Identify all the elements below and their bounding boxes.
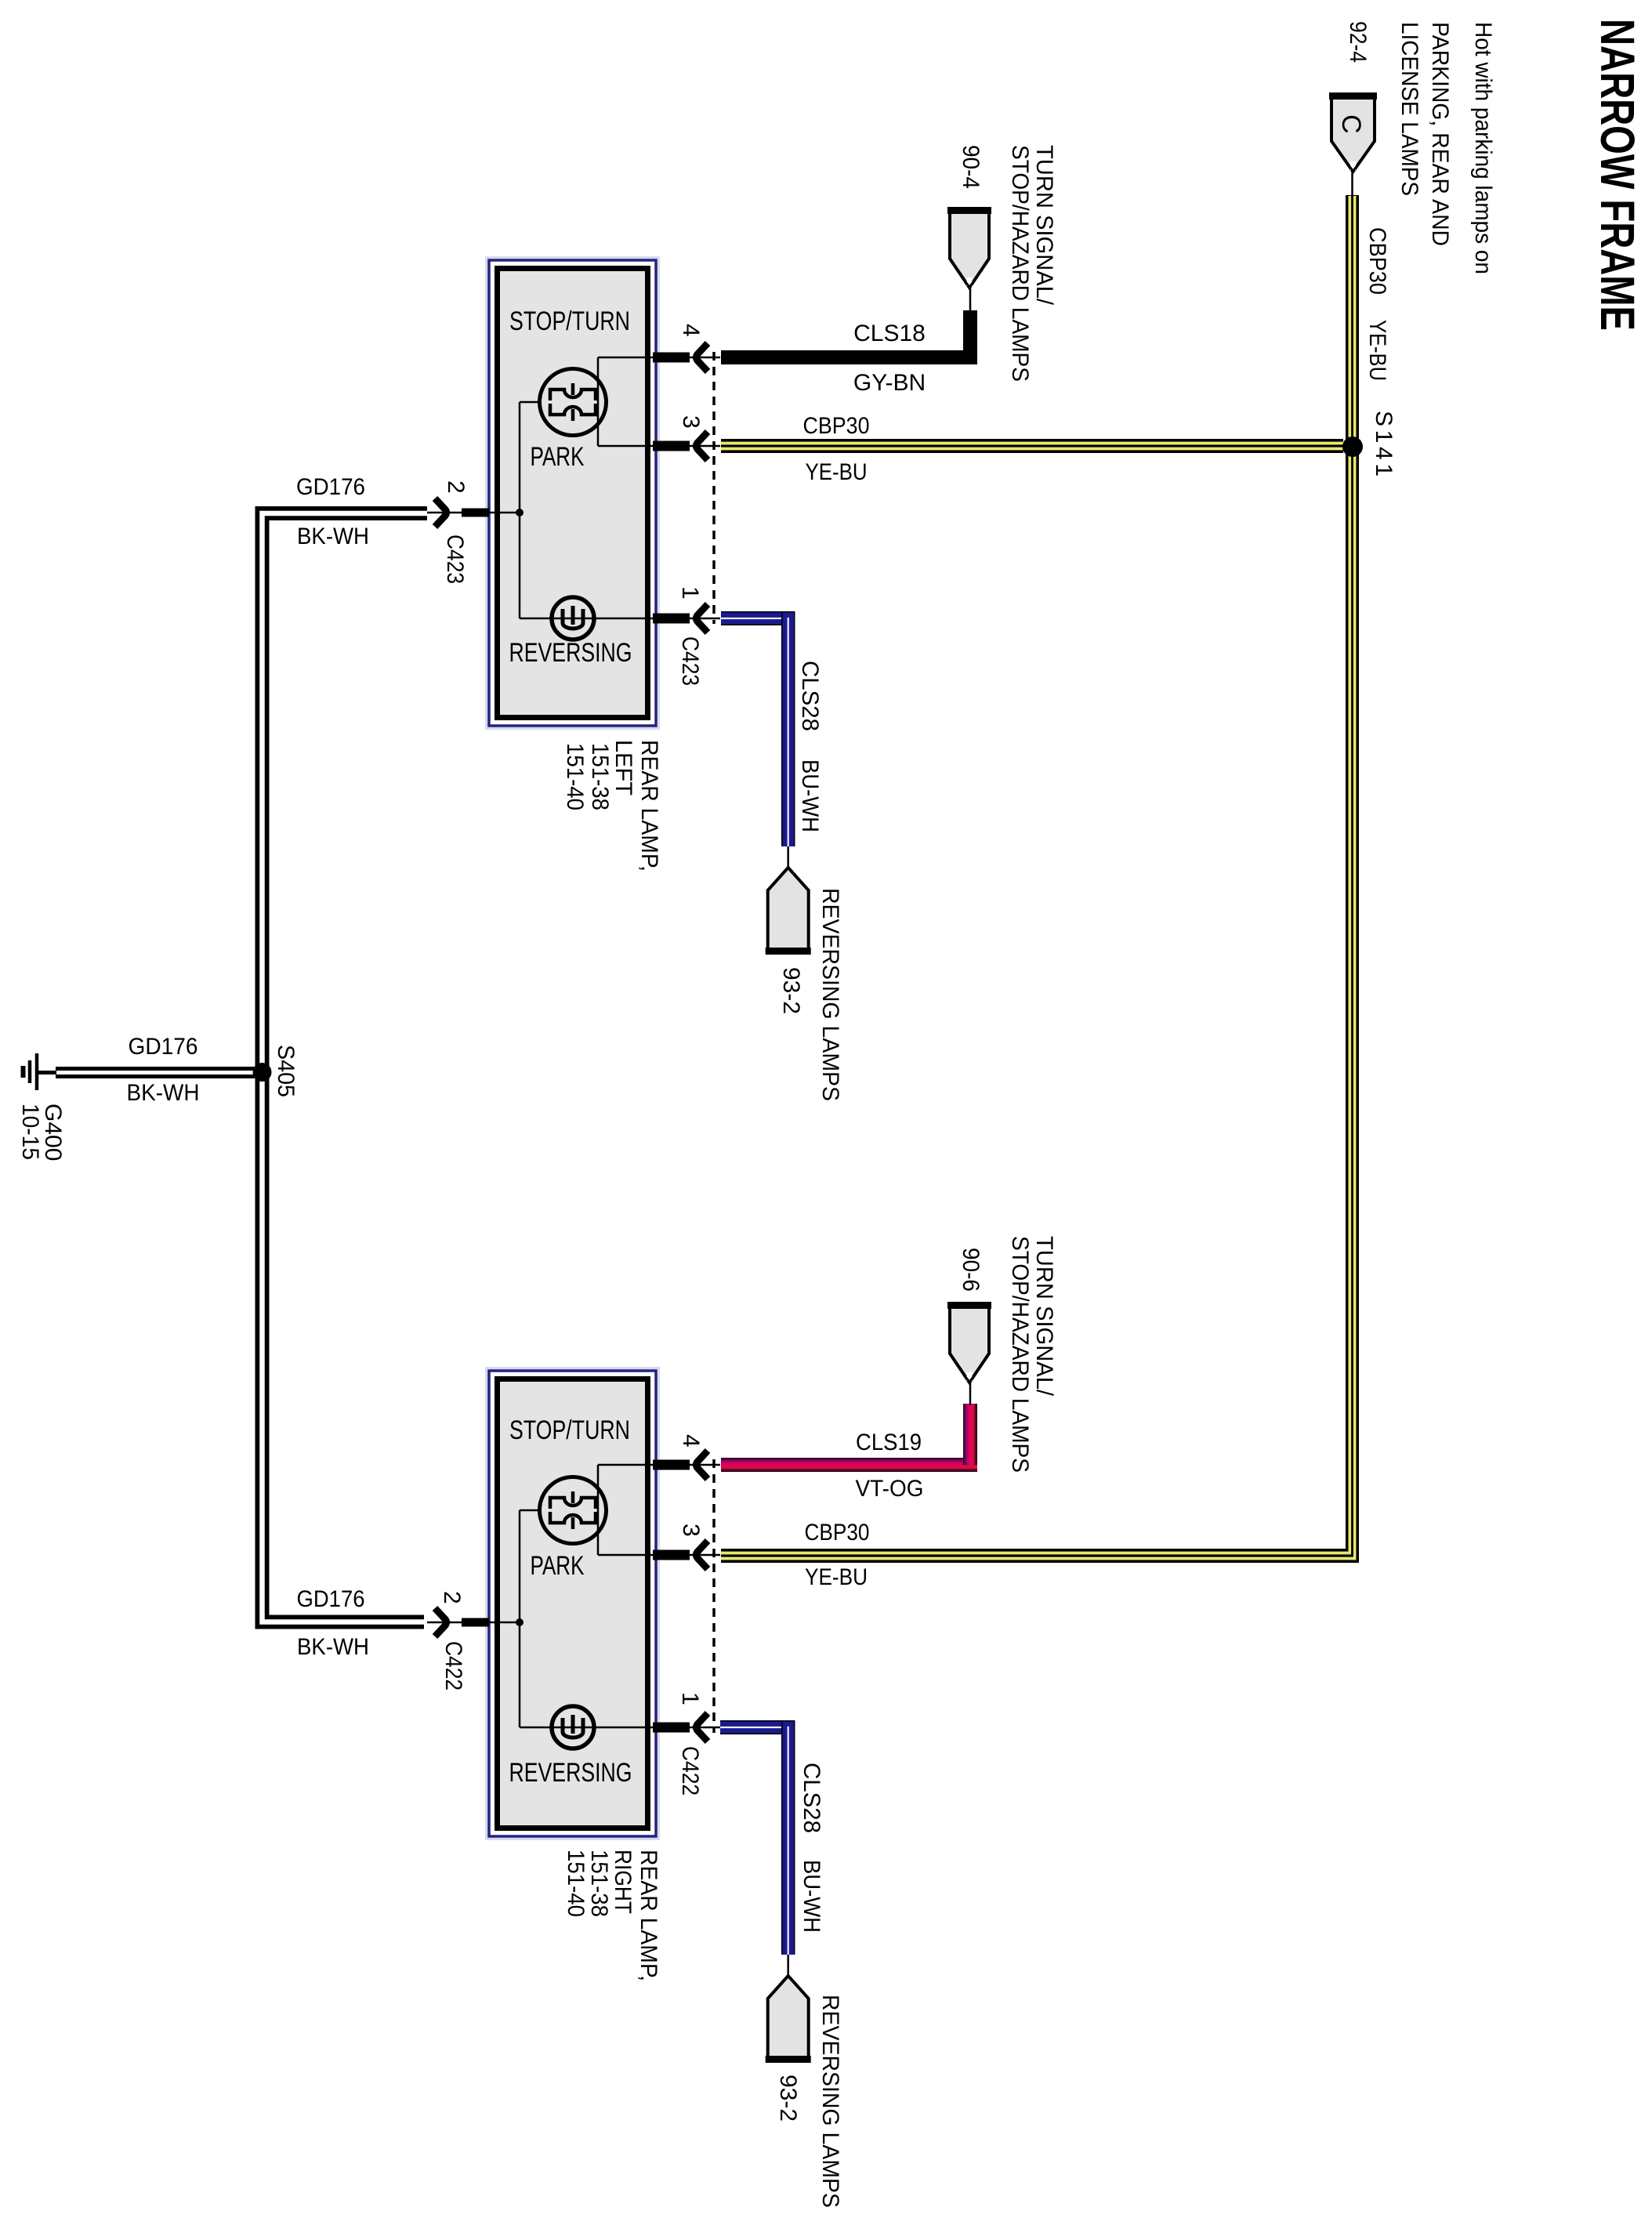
pin 4 stub left xyxy=(653,353,690,363)
svg-text:BU-WH: BU-WH xyxy=(799,1860,824,1933)
svg-text:1: 1 xyxy=(677,586,703,600)
svg-text:YE-BU: YE-BU xyxy=(805,1564,868,1590)
svg-text:4: 4 xyxy=(678,324,704,337)
svg-text:C422: C422 xyxy=(677,1746,703,1796)
wire lead from connector C xyxy=(1351,172,1353,197)
svg-text:2: 2 xyxy=(439,1591,465,1604)
wire GD176 BK-WH ground branch xyxy=(56,1067,262,1078)
wire CLS19 VT-OG (right pin 4 to turn signal feed) xyxy=(721,1404,977,1472)
svg-text:C423: C423 xyxy=(677,636,703,686)
pin 2 stub left xyxy=(462,509,489,517)
svg-text:BK-WH: BK-WH xyxy=(127,1080,200,1106)
wire CBP30 YE-BU bottom run to right lamp pin 3 xyxy=(721,1549,1359,1563)
svg-text:RIGHT: RIGHT xyxy=(610,1850,636,1914)
svg-text:90-4: 90-4 xyxy=(958,145,984,189)
svg-text:CBP30: CBP30 xyxy=(1364,227,1390,295)
connector 90-4 pentagon xyxy=(947,209,991,288)
junction dot pin2 right xyxy=(516,1618,523,1626)
lamp assembly left: inner body xyxy=(498,269,648,718)
component label REAR LAMP, LEFT 151-38 151-40 xyxy=(562,740,662,872)
ground symbol G400 xyxy=(24,1053,57,1090)
pin 1 stub right xyxy=(653,1723,690,1733)
svg-text:REVERSING LAMPS: REVERSING LAMPS xyxy=(817,1995,843,2208)
connector dashed line right xyxy=(712,1459,716,1733)
label TURN SIGNAL/ STOP/HAZARD LAMPS (top) xyxy=(1007,145,1057,382)
net label PARKING, REAR AND LICENSE LAMPS xyxy=(1397,22,1453,246)
component label REAR LAMP, RIGHT 151-38 151-40 xyxy=(563,1850,661,1981)
wire CLS18 GY-BN (left pin 4 to turn signal feed) xyxy=(721,310,977,364)
svg-text:93-2: 93-2 xyxy=(778,967,804,1014)
svg-text:3: 3 xyxy=(678,415,704,429)
svg-text:BK-WH: BK-WH xyxy=(297,1634,369,1660)
pin 3 stub left xyxy=(653,441,690,451)
svg-text:CLS28: CLS28 xyxy=(797,661,823,731)
svg-text:REAR LAMP,: REAR LAMP, xyxy=(636,740,662,872)
wire GD176 BK-WH main run (left lamp pin2 - S405 - right lamp pin2) xyxy=(263,513,428,1622)
pin 2 terminal arrow right xyxy=(435,1608,447,1636)
pin 1 terminal arrow left xyxy=(697,604,708,632)
svg-text:151-40: 151-40 xyxy=(563,1850,589,1917)
splice S405 xyxy=(253,1063,272,1082)
svg-text:YE-BU: YE-BU xyxy=(806,459,868,485)
svg-text:CLS19: CLS19 xyxy=(856,1430,922,1455)
svg-text:STOP/HAZARD LAMPS: STOP/HAZARD LAMPS xyxy=(1007,145,1033,382)
pin 3 terminal arrow left xyxy=(697,432,708,460)
label TURN SIGNAL/ STOP/HAZARD LAMPS (bottom) xyxy=(1007,1236,1057,1473)
label CBP30 YE-BU on trunk xyxy=(1364,227,1390,381)
svg-text:CBP30: CBP30 xyxy=(803,413,870,439)
wire lead from 90-4 xyxy=(969,288,972,312)
svg-text:151-38: 151-38 xyxy=(586,1850,612,1917)
svg-text:CLS18: CLS18 xyxy=(853,321,926,346)
lamp assembly right: outer housing xyxy=(488,1370,658,1838)
svg-text:NARROW FRAME: NARROW FRAME xyxy=(1591,19,1644,331)
svg-text:BU-WH: BU-WH xyxy=(797,759,823,832)
wire lead to reversing-lamps connector (left) xyxy=(787,846,789,869)
lamp assembly left: outer housing xyxy=(488,259,658,727)
connector REVERSING LAMPS pentagon (right) xyxy=(766,1976,811,2060)
pin 2 terminal arrow left xyxy=(435,498,447,527)
svg-text:YE-BU: YE-BU xyxy=(1364,320,1390,381)
stop/turn bulb right xyxy=(540,1477,607,1544)
svg-text:LEFT: LEFT xyxy=(610,740,636,795)
svg-text:REVERSING: REVERSING xyxy=(509,638,632,668)
svg-text:93-2: 93-2 xyxy=(775,2075,801,2122)
svg-text:C: C xyxy=(1336,114,1366,134)
svg-text:STOP/HAZARD LAMPS: STOP/HAZARD LAMPS xyxy=(1007,1236,1033,1473)
svg-text:C422: C422 xyxy=(440,1641,466,1691)
svg-text:CBP30: CBP30 xyxy=(805,1520,870,1546)
svg-text:4: 4 xyxy=(678,1434,704,1448)
svg-text:2: 2 xyxy=(443,480,469,494)
reversing bulb left xyxy=(552,597,594,640)
connector dashed line left xyxy=(712,352,716,624)
internal wiring left xyxy=(489,357,659,618)
svg-text:90-6: 90-6 xyxy=(958,1248,984,1292)
svg-text:S405: S405 xyxy=(273,1045,299,1097)
svg-text:REAR LAMP,: REAR LAMP, xyxy=(636,1850,661,1981)
stop/turn bulb left xyxy=(540,369,607,436)
connector C (off-page to 92-4) xyxy=(1329,95,1377,172)
svg-text:REVERSING LAMPS: REVERSING LAMPS xyxy=(817,888,843,1101)
svg-text:TURN SIGNAL/: TURN SIGNAL/ xyxy=(1031,1236,1057,1397)
connector REVERSING LAMPS pentagon (left) xyxy=(766,868,811,951)
wire lead from 90-6 xyxy=(969,1383,972,1405)
svg-text:GD176: GD176 xyxy=(297,1586,365,1612)
splice S141 xyxy=(1342,437,1363,457)
wire CBP30 YE-BU vertical trunk xyxy=(1346,195,1359,1563)
svg-text:STOP/TURN: STOP/TURN xyxy=(509,306,630,336)
pin 3 terminal arrow right xyxy=(697,1541,708,1569)
svg-text:3: 3 xyxy=(678,1524,704,1537)
lamp assembly right: inner body xyxy=(498,1379,648,1828)
pin 1 terminal arrow right xyxy=(697,1713,708,1741)
svg-text:151-38: 151-38 xyxy=(587,743,613,810)
wire CLS28 BU-WH (right) xyxy=(720,1720,795,1955)
svg-text:151-40: 151-40 xyxy=(562,743,588,810)
svg-text:PARK: PARK xyxy=(531,442,585,472)
svg-text:LICENSE LAMPS: LICENSE LAMPS xyxy=(1397,22,1422,196)
wire lead to reversing-lamps connector (right) xyxy=(787,1955,789,1977)
svg-text:BK-WH: BK-WH xyxy=(297,524,369,549)
connector 90-6 pentagon xyxy=(947,1304,991,1383)
svg-text:GD176: GD176 xyxy=(296,474,365,500)
svg-text:VT-OG: VT-OG xyxy=(856,1476,924,1502)
svg-text:1: 1 xyxy=(677,1692,703,1705)
junction dot pin2 left xyxy=(516,509,523,516)
wire CBP30 YE-BU branch to left lamp pin 3 xyxy=(721,439,1343,453)
internal wiring right xyxy=(489,1465,659,1727)
pin 1 stub left xyxy=(653,614,690,624)
pin 4 stub right xyxy=(653,1460,690,1470)
svg-text:10-15: 10-15 xyxy=(17,1104,43,1160)
reversing bulb right xyxy=(552,1706,594,1749)
svg-text:92-4: 92-4 xyxy=(1345,21,1371,63)
svg-text:PARK: PARK xyxy=(531,1551,585,1581)
svg-text:PARKING, REAR AND: PARKING, REAR AND xyxy=(1427,22,1453,246)
svg-text:GD176: GD176 xyxy=(129,1034,198,1060)
svg-text:C423: C423 xyxy=(442,535,468,584)
pin 4 terminal arrow left xyxy=(697,343,708,371)
svg-text:Hot with parking lamps on: Hot with parking lamps on xyxy=(1470,22,1496,274)
svg-text:REVERSING: REVERSING xyxy=(509,1758,632,1788)
pin 2 stub right xyxy=(462,1618,489,1627)
svg-text:GY-BN: GY-BN xyxy=(853,370,926,396)
pin 3 stub right xyxy=(653,1550,690,1560)
svg-text:STOP/TURN: STOP/TURN xyxy=(509,1415,630,1445)
svg-text:TURN SIGNAL/: TURN SIGNAL/ xyxy=(1031,145,1057,306)
pin 4 terminal arrow right xyxy=(697,1451,708,1479)
svg-text:CLS28: CLS28 xyxy=(799,1763,824,1833)
wire CLS28 BU-WH (left) xyxy=(721,611,795,846)
label G400 10-15 xyxy=(17,1104,66,1161)
